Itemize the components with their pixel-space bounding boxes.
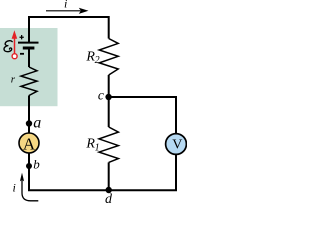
svg-text:i: i	[13, 181, 16, 195]
emf red terminal circle	[12, 54, 17, 59]
svg-text:r: r	[11, 74, 16, 86]
battery negative plate	[23, 47, 35, 50]
node a	[26, 120, 32, 126]
svg-text:b: b	[33, 157, 40, 172]
emf script-E label	[4, 41, 12, 52]
battery + label	[20, 35, 24, 39]
svg-text:2: 2	[95, 55, 100, 66]
emf red arrow	[14, 38, 16, 54]
voltmeter V	[166, 134, 187, 155]
battery positive plate	[18, 42, 39, 44]
wire: battery top to top-left corner, top run, down to R2	[29, 17, 109, 43]
wire: resistor r to ammeter	[28, 96, 30, 134]
svg-text:a: a	[33, 115, 41, 132]
battery - label	[20, 53, 24, 55]
battery highlight box	[0, 28, 58, 106]
svg-text:i: i	[64, 0, 67, 11]
ammeter A	[19, 133, 39, 153]
node d	[106, 187, 112, 193]
resistor R1	[99, 127, 118, 162]
wire: voltmeter bottom to bottom-right corner	[29, 153, 176, 190]
wire: node c to voltmeter branch top corner	[109, 97, 176, 134]
wire: battery bottom to resistor r	[28, 48, 30, 67]
svg-text:V: V	[172, 138, 182, 153]
svg-text:1: 1	[95, 143, 100, 154]
svg-text:c: c	[98, 88, 104, 103]
current arrow bottom-left	[22, 179, 38, 201]
svg-text:d: d	[105, 192, 113, 205]
wire: R2 bottom through node c to R1 top	[108, 75, 110, 127]
node b	[26, 163, 32, 169]
resistor R2	[99, 39, 118, 76]
resistor r	[21, 67, 37, 96]
wire: R1 bottom to node d	[108, 162, 110, 190]
node c	[105, 94, 111, 100]
svg-text:A: A	[23, 134, 36, 153]
current arrow top	[46, 10, 81, 12]
